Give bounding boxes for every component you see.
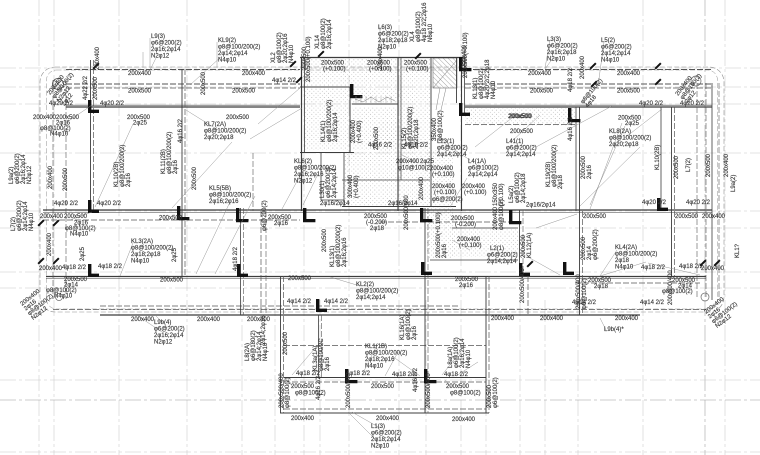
svg-text:N4φ10: N4φ10: [491, 80, 497, 99]
column stub: [236, 208, 248, 222]
svg-text:200x400: 200x400: [491, 316, 515, 322]
svg-text:4φ16 2/2: 4φ16 2/2: [316, 375, 322, 400]
svg-text:200x500: 200x500: [232, 89, 256, 95]
beam dashed bottom band a: [100, 305, 460, 307]
svg-text:200x400: 200x400: [247, 317, 271, 323]
label leader line: [600, 250, 617, 276]
slab outline inner rounded: [47, 70, 718, 309]
svg-text:2φ16;2φ14: 2φ16;2φ14: [333, 112, 339, 142]
axis grid horizontal y=153: [0, 152, 760, 154]
diag label top-right corner: [675, 73, 703, 105]
svg-text:φ6@200(2): φ6@200(2): [262, 200, 268, 231]
svg-text:4φ14 2/2: 4φ14 2/2: [640, 300, 665, 306]
beam x240 b: [243, 208, 245, 315]
wall beam x92 a: [90, 60, 92, 211]
svg-text:200x400: 200x400: [724, 153, 730, 177]
svg-text:200x500: 200x500: [617, 89, 641, 95]
axis grid vertical (lower) x=578: [577, 300, 579, 455]
label leader line: [216, 42, 218, 68]
diag label bottom-left corner: [20, 288, 55, 321]
column stub: [88, 200, 99, 213]
svg-text:200x500: 200x500: [64, 214, 88, 220]
svg-text:φ6@200(2): φ6@200(2): [151, 41, 182, 47]
frame beam top chord solid b: [465, 106, 712, 108]
label leader line: [600, 262, 646, 276]
beam dashed under band right of stair: [465, 124, 575, 126]
svg-text:200x400: 200x400: [95, 46, 101, 70]
beam x528: [527, 276, 529, 315]
svg-text:2φ14;2φ14: 2φ14;2φ14: [437, 152, 467, 158]
axis grid vertical (lower) x=242: [241, 300, 243, 455]
column stub: [459, 103, 470, 116]
svg-text:2φ18: 2φ18: [615, 258, 630, 264]
beam x582: [582, 211, 584, 315]
beam mid dashed lower-left: [43, 219, 300, 221]
svg-text:200x400: 200x400: [33, 115, 57, 121]
label leader line: [138, 316, 162, 332]
svg-text:4φ16 2/2: 4φ16 2/2: [413, 367, 419, 392]
section tick mark: [654, 78, 661, 85]
label leader line: [444, 143, 470, 160]
svg-text:φ8@100(2): φ8@100(2): [285, 377, 291, 408]
label leader line: [287, 380, 293, 387]
svg-text:φ6@100(2): φ6@100(2): [468, 166, 499, 172]
axis grid vertical x=399: [398, 0, 400, 455]
svg-text:4φ20 2/2: 4φ20 2/2: [97, 201, 122, 207]
beam top band line c: [66, 87, 300, 89]
svg-text:2φ16: 2φ16: [325, 356, 331, 371]
beam x661: [660, 107, 662, 211]
column stub: [568, 108, 580, 122]
section tick mark: [52, 257, 59, 264]
stipple slab region mid band: [351, 87, 397, 105]
svg-text:2φ14;2φ14: 2φ14;2φ14: [468, 172, 498, 178]
svg-text:2φ14;2φ14: 2φ14;2φ14: [356, 295, 386, 301]
axis grid vertical (lower) x=320: [319, 300, 321, 455]
axis grid vertical (lower) x=520: [519, 300, 521, 455]
svg-text:200x500: 200x500: [706, 153, 712, 177]
svg-text:(+0.100): (+0.100): [323, 67, 346, 73]
svg-text:4φ20 2/2: 4φ20 2/2: [639, 101, 664, 107]
axis grid horizontal y=228: [0, 227, 760, 229]
section tick mark: [317, 50, 324, 57]
section tick mark: [295, 76, 302, 83]
svg-text:2φ16;2φ14: 2φ16;2φ14: [327, 19, 333, 49]
svg-text:L5(2): L5(2): [601, 38, 615, 44]
label leader line: [330, 277, 360, 286]
wing left edge b: [283, 276, 285, 413]
beam x240 a: [240, 208, 242, 315]
svg-text:200x400: 200x400: [197, 317, 221, 323]
svg-text:N4φ10: N4φ10: [70, 232, 89, 238]
svg-text:200x500/400: 200x500/400: [404, 195, 410, 230]
beam x489 b: [488, 276, 490, 413]
beam x266: [265, 211, 267, 315]
svg-text:φ8@100(2): φ8@100(2): [450, 391, 481, 397]
wing wall x425: [424, 315, 426, 413]
room wall x350: [349, 87, 351, 153]
svg-text:200x400: 200x400: [131, 317, 155, 323]
svg-text:4φ18 2/2: 4φ18 2/2: [641, 265, 666, 271]
svg-text:φ8@100/200(2): φ8@100/200(2): [204, 129, 246, 135]
diag label near x585: [580, 78, 604, 109]
wing mid beam solid y377: [284, 377, 486, 379]
frame beam bottom chord solid: [100, 314, 640, 316]
svg-text:φ6@200(2): φ6@200(2): [154, 327, 185, 333]
svg-text:2φ14;2φ14: 2φ14;2φ14: [506, 152, 536, 158]
svg-text:N2φ10: N2φ10: [547, 57, 566, 63]
svg-text:200x500: 200x500: [510, 129, 534, 135]
svg-text:KL4(2A): KL4(2A): [615, 245, 637, 251]
column stub: [563, 262, 574, 275]
svg-text:KL9(2): KL9(2): [218, 38, 236, 44]
beam x674 b: [674, 107, 676, 276]
svg-text:4φ14 2/2: 4φ14 2/2: [324, 299, 349, 305]
svg-text:2φ14;2φ16: 2φ14;2φ16: [261, 315, 267, 345]
beam dashed right y283: [575, 282, 700, 284]
label leader line: [400, 154, 418, 163]
svg-text:200x400: 200x400: [580, 55, 586, 79]
svg-text:200x400: 200x400: [540, 316, 564, 322]
svg-text:2φ16;2φ14: 2φ16;2φ14: [151, 47, 181, 53]
frame beam second chord y276: [46, 276, 706, 278]
section tick mark: [590, 80, 597, 87]
svg-text:N2φ12: N2φ12: [294, 179, 313, 185]
svg-text:2φ16;2φ16: 2φ16;2φ16: [209, 199, 239, 205]
svg-text:4φ18 2/2: 4φ18 2/2: [98, 264, 123, 270]
beam x579: [579, 107, 581, 315]
svg-text:N4φ10: N4φ10: [50, 132, 69, 138]
label leader line: [392, 356, 420, 376]
svg-text:KL8(2A): KL8(2A): [609, 129, 631, 135]
svg-text:L41(1): L41(1): [506, 139, 523, 145]
svg-text:2φ18: 2φ18: [594, 284, 609, 290]
wall x456 hatch east: [456, 57, 458, 103]
svg-text:200x500: 200x500: [283, 331, 289, 355]
beam top band line c2: [465, 87, 712, 89]
svg-text:KL1(1B): KL1(1B): [365, 344, 387, 350]
svg-text:200x500: 200x500: [291, 384, 315, 390]
label leader line: [622, 109, 662, 140]
section tick mark: [414, 52, 421, 59]
wall beam x183 a: [181, 69, 183, 276]
stipple stair room east: [352, 107, 396, 150]
label leader line: [352, 412, 380, 428]
svg-text:φ6@200(2): φ6@200(2): [371, 431, 402, 437]
svg-text:200x500/400: 200x500/400: [520, 268, 526, 303]
label leader line: [450, 178, 467, 207]
hatch stair opening taper: [433, 60, 457, 110]
svg-text:2φ18: 2φ18: [558, 174, 564, 189]
label leader line: [215, 196, 255, 274]
axis grid vertical x=461: [460, 0, 462, 455]
label leader line: [250, 108, 302, 139]
svg-text:2φ20;2φ18: 2φ20;2φ18: [609, 142, 639, 148]
column stub: [519, 263, 530, 276]
svg-text:N2φ12: N2φ12: [154, 340, 173, 346]
beam 200x500 top band line b2: [465, 83, 712, 85]
svg-text:4φ14 2/2: 4φ14 2/2: [287, 299, 312, 305]
label leader line: [362, 347, 376, 375]
left wing inner x66: [65, 80, 67, 299]
slab outline outer rounded: [40, 67, 724, 312]
svg-text:4φ18 2/2: 4φ18 2/2: [444, 372, 469, 378]
svg-text:2φ16;2φ14: 2φ16;2φ14: [154, 333, 184, 339]
svg-text:2φ14;2φ18: 2φ14;2φ18: [521, 173, 527, 203]
svg-text:KL5(5B): KL5(5B): [209, 186, 231, 192]
svg-text:2φ14;2φ14: 2φ14;2φ14: [601, 51, 631, 57]
stipple slab region center small: [344, 152, 380, 180]
wing mid beam dashed y382: [284, 381, 486, 383]
svg-text:4φ18 2/2: 4φ18 2/2: [568, 67, 574, 92]
svg-text:4φ16 2/2: 4φ16 2/2: [178, 118, 184, 143]
svg-text:2φ18;2φ14: 2φ18;2φ14: [371, 437, 401, 443]
svg-text:φ8@100(2): φ8@100(2): [662, 289, 693, 295]
svg-text:2φ18: 2φ18: [370, 226, 385, 232]
svg-text:N2φ10: N2φ10: [371, 444, 390, 450]
wall beam x92 b: [93, 60, 95, 211]
svg-text:2φ16/2φ14: 2φ16/2φ14: [526, 203, 556, 209]
stipple slab region west lower column: [379, 122, 400, 180]
svg-text:φ6@100(2): φ6@100(2): [493, 377, 499, 408]
svg-text:φ6@200(2): φ6@200(2): [432, 197, 463, 203]
label leader line: [600, 318, 606, 330]
label leader line: [536, 106, 612, 147]
label leader line: [282, 172, 302, 209]
corner column circle top-right: [691, 76, 701, 86]
beam x486 a: [485, 276, 487, 413]
label leader line: [70, 105, 92, 120]
svg-text:200x400: 200x400: [702, 214, 726, 220]
svg-text:200x500: 200x500: [201, 71, 207, 95]
svg-text:L2(1): L2(1): [490, 246, 504, 252]
svg-text:2φ20;2φ18: 2φ20;2φ18: [414, 119, 420, 149]
label leader line: [186, 110, 218, 130]
label leader line: [442, 352, 460, 375]
svg-text:N4φ10: N4φ10: [365, 364, 384, 370]
svg-text:φ10@100(2): φ10@100(2): [398, 166, 432, 172]
svg-text:200x500: 200x500: [159, 216, 183, 222]
svg-text:φ6@200(2): φ6@200(2): [547, 44, 578, 50]
axis grid horizontal y=211: [0, 210, 760, 212]
svg-text:φ8@100/200(2): φ8@100/200(2): [131, 246, 173, 252]
svg-text:φ8@100/200(2): φ8@100/200(2): [365, 351, 407, 357]
svg-text:200x400: 200x400: [47, 232, 53, 256]
svg-text:L3(3): L3(3): [547, 37, 561, 43]
svg-text:4φ20 2/2: 4φ20 2/2: [642, 200, 667, 206]
svg-text:φ6@100(2): φ6@100(2): [582, 278, 588, 309]
svg-text:N4φ10: N4φ10: [615, 265, 634, 271]
beam x428 upper: [427, 208, 429, 315]
svg-text:KL10(2B): KL10(2B): [655, 145, 661, 170]
svg-text:200x500: 200x500: [674, 155, 680, 179]
svg-text:4φ20 2/2: 4φ20 2/2: [54, 201, 79, 207]
stair east wall x398: [397, 57, 399, 211]
beam 200x500 top band line b: [66, 83, 300, 85]
axis grid vertical x=119: [118, 0, 120, 455]
right wing dashed x697: [696, 83, 698, 299]
svg-text:2φ25: 2φ25: [80, 246, 86, 261]
wing dashed beam y345: [284, 345, 486, 347]
svg-text:φ6@200(2): φ6@200(2): [437, 146, 468, 152]
axis grid vertical x=304: [303, 0, 305, 455]
label leader line: [258, 88, 300, 124]
svg-text:200x500: 200x500: [322, 228, 328, 252]
svg-text:200x400: 200x400: [242, 71, 266, 77]
beam dashed bottom band b: [53, 309, 706, 311]
svg-text:200x400: 200x400: [701, 266, 725, 272]
stipple slab region center wide: [342, 180, 427, 206]
axis grid vertical x=39: [38, 0, 40, 455]
svg-text:φ6@200(2): φ6@200(2): [601, 45, 632, 51]
stair west wall b: [304, 57, 306, 153]
label leader line: [598, 42, 604, 86]
stipple slab region center-east: [427, 150, 453, 206]
svg-text:KL3(2A): KL3(2A): [131, 239, 153, 245]
label leader line: [196, 202, 230, 274]
wing bottom solid y413: [280, 412, 489, 414]
svg-text:200x500: 200x500: [192, 166, 198, 190]
svg-text:200x500/400: 200x500/400: [668, 270, 674, 305]
svg-text:200x500: 200x500: [302, 46, 308, 70]
label leader line: [580, 147, 640, 206]
svg-text:2φ18;2φ18: 2φ18;2φ18: [131, 252, 161, 258]
corner column circle top-left: [53, 79, 64, 90]
svg-text:2φ16: 2φ16: [173, 159, 179, 174]
svg-text:L1(3): L1(3): [371, 424, 385, 430]
axis grid vertical (lower) x=486: [485, 300, 487, 455]
beam x576: [575, 107, 577, 211]
svg-text:2φ16/2φ14: 2φ16/2φ14: [320, 201, 350, 207]
wall beam x183 b: [184, 69, 186, 276]
svg-text:N2φ12: N2φ12: [151, 54, 170, 60]
corner column circle bottom-right: [701, 293, 709, 301]
svg-text:φ8@100(2): φ8@100(2): [499, 199, 505, 230]
label leader line: [150, 58, 156, 70]
svg-text:200x500: 200x500: [530, 89, 554, 95]
room L30 top y152: [321, 152, 344, 154]
label leader line: [155, 315, 163, 323]
stipple slab region lower center room: [452, 228, 518, 257]
svg-text:L9a(2): L9a(2): [731, 175, 737, 192]
column stub: [303, 208, 315, 222]
axis grid vertical (lower) x=545: [544, 300, 546, 455]
stipple stair room west: [304, 88, 349, 150]
svg-text:2φ25: 2φ25: [172, 247, 178, 262]
svg-text:200x500: 200x500: [160, 278, 184, 284]
svg-text:N4φ10: N4φ10: [466, 349, 472, 368]
label leader line: [648, 263, 700, 275]
svg-text:4φ18 2/2: 4φ18 2/2: [233, 246, 239, 271]
column stub: [657, 198, 668, 211]
frame beam top chord companion b: [465, 104, 712, 106]
svg-text:4φ14 2/2: 4φ14 2/2: [272, 78, 297, 84]
wall x462: [461, 57, 463, 211]
section tick mark: [37, 219, 44, 226]
section tick mark: [526, 260, 533, 267]
svg-text:N4φ10: N4φ10: [29, 212, 35, 231]
axis grid vertical x=54: [53, 0, 55, 455]
svg-text:200x500/400: 200x500/400: [346, 373, 352, 408]
section tick mark: [289, 60, 296, 67]
svg-text:200x400: 200x400: [48, 165, 54, 189]
svg-text:(+0.400): (+0.400): [357, 120, 363, 143]
svg-text:4φ20 2/2: 4φ20 2/2: [680, 101, 705, 107]
axis grid horizontal y=272: [0, 271, 760, 273]
hatch stair opening: [433, 58, 457, 88]
label leader line: [445, 380, 451, 387]
label leader line: [348, 412, 378, 442]
stipple slab region east stair column: [400, 58, 431, 180]
axis grid horizontal y=400: [0, 399, 760, 401]
svg-text:200x400: 200x400: [419, 176, 425, 200]
label leader line: [510, 115, 540, 143]
axis grid horizontal y=68: [0, 67, 760, 69]
beam mid dashed lower-center: [380, 221, 520, 223]
svg-text:200x400: 200x400: [378, 46, 384, 70]
svg-text:200x400: 200x400: [617, 71, 641, 77]
label leader line: [149, 38, 151, 68]
stair east wall x401: [400, 57, 402, 180]
svg-text:4φ18 2/2: 4φ18 2/2: [679, 264, 704, 270]
wing left edge a: [280, 276, 282, 413]
svg-text:L9b(4): L9b(4): [154, 320, 171, 326]
svg-text:200x500: 200x500: [226, 115, 250, 121]
right wing dashed x706: [705, 83, 707, 299]
column stub: [509, 210, 521, 224]
corner column circle bottom-left: [56, 294, 63, 301]
center wall y206: [342, 206, 456, 208]
svg-text:2φ14;2φ14: 2φ14;2φ14: [332, 168, 338, 198]
section tick mark: [52, 219, 59, 226]
axis grid vertical x=643: [642, 0, 644, 455]
label leader line: [545, 40, 550, 68]
svg-text:4φ20 2/2: 4φ20 2/2: [100, 101, 125, 107]
label leader line: [172, 142, 232, 208]
column stub: [88, 100, 99, 113]
label leader line: [303, 174, 318, 205]
label leader line: [452, 240, 470, 250]
beam x516 pair b: [522, 210, 524, 277]
wall x465: [464, 57, 466, 115]
svg-text:L9(3): L9(3): [151, 34, 165, 40]
svg-text:200x400: 200x400: [40, 214, 64, 220]
column stub: [88, 264, 99, 277]
svg-text:4φ22 2/2: 4φ22 2/2: [83, 75, 89, 100]
svg-text:KL7(2A): KL7(2A): [204, 122, 226, 128]
stair mid wall y153: [300, 152, 354, 154]
column stub: [237, 264, 248, 277]
svg-text:2φ25: 2φ25: [133, 121, 148, 127]
label leader line: [292, 347, 316, 375]
room L30 wall x344: [343, 152, 345, 206]
frame beam second chord companion: [46, 277, 706, 279]
label leader line: [536, 214, 577, 228]
label leader line: [379, 27, 381, 56]
diag label top-left corner: [47, 72, 75, 107]
stair wall x431: [430, 57, 432, 206]
axis grid horizontal y=87: [0, 86, 760, 88]
svg-text:KL1?: KL1?: [735, 243, 741, 258]
svg-text:2φ18;2φ18: 2φ18;2φ18: [378, 38, 408, 44]
section tick mark: [699, 259, 706, 266]
label leader line: [590, 123, 622, 209]
svg-text:2φ14;2φ14: 2φ14;2φ14: [487, 259, 517, 265]
room L30 wall x321: [320, 152, 322, 200]
axis grid horizontal y=104: [0, 103, 760, 105]
label leader line: [190, 56, 222, 85]
svg-text:N4φ10: N4φ10: [289, 44, 295, 63]
